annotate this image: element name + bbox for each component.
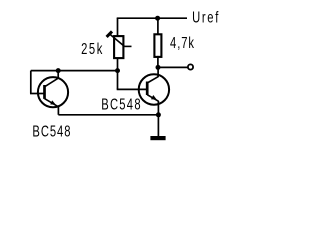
wire resistor R1 bottom lead bbox=[157, 56, 159, 68]
wire ground stem bbox=[157, 115, 159, 137]
node junction output bbox=[156, 65, 161, 70]
wire Q1 base lead bbox=[30, 93, 45, 95]
wire Q1 collector lead bbox=[57, 71, 59, 79]
transistor Q2 base bar bbox=[146, 82, 149, 96]
potentiometer P1 25k body bbox=[114, 36, 123, 58]
wire Q1 base loop vertical bbox=[30, 71, 32, 94]
wire Q2 base lead bbox=[117, 88, 148, 90]
node junction top bbox=[155, 16, 160, 21]
svg-text:BC548: BC548 bbox=[101, 94, 141, 113]
wire bottom rail bbox=[58, 114, 158, 116]
transistor Q1 emitter arrow bbox=[50, 100, 56, 104]
wire pot bottom lead bbox=[117, 58, 119, 71]
transistor Q2 circle bbox=[139, 74, 169, 104]
wire output bbox=[158, 66, 188, 68]
wire Q1 emitter lead bbox=[57, 106, 59, 114]
resistor R1 4,7k body bbox=[154, 34, 161, 57]
node junction pot bottom bbox=[115, 68, 120, 73]
svg-text:Uref: Uref bbox=[192, 7, 218, 26]
wire pot top lead bbox=[117, 18, 119, 36]
node junction Q1 collector bbox=[56, 68, 61, 73]
wire top rail Uref bbox=[117, 17, 187, 19]
transistor Q1 emitter stroke bbox=[45, 99, 59, 107]
wire mirror top bbox=[31, 70, 118, 72]
svg-text:BC548: BC548 bbox=[32, 122, 70, 141]
potentiometer P1 wiper stub bbox=[124, 45, 131, 47]
transistor Q2 emitter stroke bbox=[147, 95, 158, 102]
transistor Q2 emitter arrow bbox=[151, 95, 157, 100]
transistor Q2 collector stroke bbox=[147, 77, 158, 83]
svg-text:4,7k: 4,7k bbox=[170, 33, 194, 52]
potentiometer P1 adjust shaft bbox=[110, 34, 125, 46]
potentiometer P1 adjust T-bar bbox=[107, 31, 112, 37]
transistor Q1 base bar bbox=[43, 85, 46, 99]
ground bbox=[150, 136, 165, 140]
wire Q2 emitter lead bbox=[157, 101, 159, 115]
terminal output open circle bbox=[188, 64, 193, 69]
transistor Q1 circle bbox=[38, 77, 68, 107]
svg-text:25k: 25k bbox=[81, 39, 102, 58]
wire resistor R1 top lead bbox=[157, 18, 159, 34]
wire Q2 base drop bbox=[117, 71, 119, 90]
wire Q2 collector lead bbox=[157, 67, 159, 77]
transistor Q1 collector stroke bbox=[45, 78, 59, 87]
node junction emitter rail bbox=[156, 112, 161, 117]
